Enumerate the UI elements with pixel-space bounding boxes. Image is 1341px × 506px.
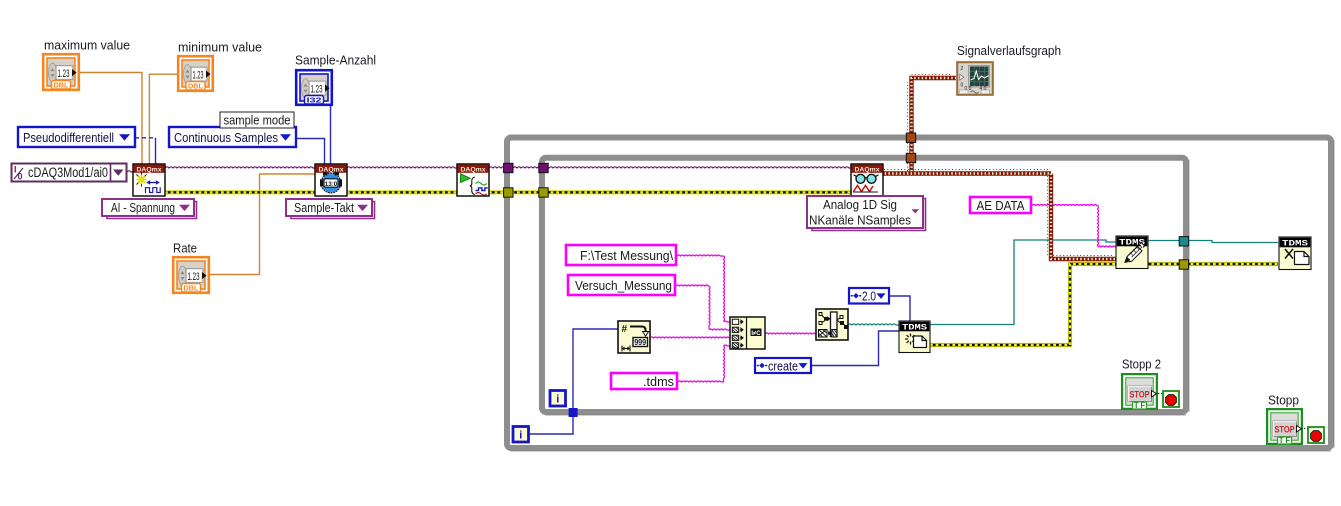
svg-text:sample mode: sample mode xyxy=(224,112,291,127)
svg-text:DBL: DBL xyxy=(54,80,69,89)
svg-text:2.0: 2.0 xyxy=(862,289,876,304)
svg-text:I32: I32 xyxy=(307,95,322,104)
svg-text:Continuous Samples: Continuous Samples xyxy=(174,130,278,145)
svg-text:1.23: 1.23 xyxy=(193,70,204,82)
svg-text:2: 2 xyxy=(961,66,964,72)
svg-text:cDAQ3Mod1/ai0: cDAQ3Mod1/ai0 xyxy=(28,165,108,180)
svg-text:999: 999 xyxy=(634,337,646,347)
svg-text:Stopp: Stopp xyxy=(1268,393,1299,408)
svg-text:#: # xyxy=(622,324,628,335)
svg-text:i: i xyxy=(519,430,522,442)
svg-text:i: i xyxy=(556,394,559,406)
svg-text:Versuch_Messung: Versuch_Messung xyxy=(575,278,672,293)
svg-text:STOP: STOP xyxy=(1130,390,1150,400)
svg-text:Pseudodifferentiell: Pseudodifferentiell xyxy=(23,130,114,145)
svg-text:DAQmx: DAQmx xyxy=(855,167,880,174)
svg-text:T F: T F xyxy=(1134,401,1145,410)
svg-text:DAQmx: DAQmx xyxy=(319,167,344,174)
svg-text:NKanäle NSamples: NKanäle NSamples xyxy=(809,212,911,227)
svg-text:minimum value: minimum value xyxy=(178,40,262,55)
svg-text:I: I xyxy=(14,165,17,175)
svg-text:I≠C: I≠C xyxy=(751,331,761,337)
svg-text:DAQmx: DAQmx xyxy=(461,167,486,174)
svg-text:13:0: 13:0 xyxy=(325,181,338,188)
svg-text:TDMS: TDMS xyxy=(1282,240,1308,249)
svg-text:DBL: DBL xyxy=(188,81,203,90)
svg-text:DBL: DBL xyxy=(184,283,199,292)
svg-text:.tdms: .tdms xyxy=(643,374,674,389)
svg-text:TDMS: TDMS xyxy=(902,324,927,333)
svg-text:1.23: 1.23 xyxy=(188,271,200,283)
svg-text:Rate: Rate xyxy=(173,241,197,256)
svg-text:F:\Test Messung\: F:\Test Messung\ xyxy=(580,248,673,263)
svg-text:Signalverlaufsgraph: Signalverlaufsgraph xyxy=(957,43,1061,58)
svg-text:AI - Spannung: AI - Spannung xyxy=(111,200,175,215)
svg-text:1.23: 1.23 xyxy=(58,68,70,80)
svg-text:STOP: STOP xyxy=(1275,425,1295,435)
svg-text:DAQmx: DAQmx xyxy=(137,167,162,174)
svg-text:0: 0 xyxy=(961,83,964,89)
svg-text:Sample-Anzahl: Sample-Anzahl xyxy=(295,53,376,68)
svg-text:Analog 1D Sig: Analog 1D Sig xyxy=(823,197,897,212)
svg-text:maximum value: maximum value xyxy=(44,38,130,53)
svg-text:Sample-Takt: Sample-Takt xyxy=(294,200,354,215)
svg-text:create: create xyxy=(768,358,798,373)
svg-text:AE DATA: AE DATA xyxy=(977,198,1025,213)
svg-text:T F: T F xyxy=(1279,436,1290,445)
svg-text:Stopp 2: Stopp 2 xyxy=(1122,357,1161,372)
svg-text:1.23: 1.23 xyxy=(311,84,323,96)
